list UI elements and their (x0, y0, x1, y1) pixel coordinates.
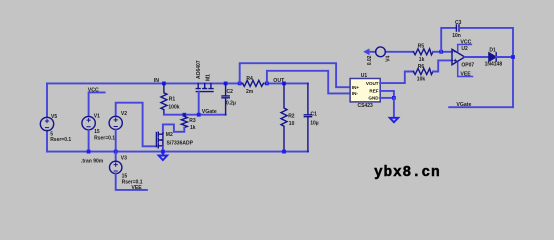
wire U2 VCC pin stub (458, 45, 472, 52)
wire IN rail from V5 top to R4 (47, 82, 243, 84)
wire VGate rail (164, 114, 226, 116)
svg-text:1N4148: 1N4148 (485, 61, 503, 67)
node junction R2-rail (282, 150, 286, 154)
wire VCC stub at V1 (89, 92, 105, 116)
svg-text:IN-: IN- (352, 91, 359, 96)
wire M1 gate to VGate rail (198, 92, 200, 115)
wire U1 VOUT to R6 (380, 72, 413, 84)
wire C3 right leg to feedback corner (459, 28, 513, 107)
svg-text:V1: V1 (94, 114, 100, 120)
svg-text:.tran 90m: .tran 90m (81, 159, 104, 165)
resistor R1 (161, 83, 167, 114)
svg-text:Rser=0.1: Rser=0.1 (50, 137, 71, 143)
svg-text:C3: C3 (455, 20, 462, 26)
svg-text:D1: D1 (489, 48, 496, 54)
capacitor C3 (456, 25, 459, 31)
resistor R5 (413, 49, 433, 55)
svg-text:2m: 2m (246, 89, 254, 95)
svg-text:AO6407: AO6407 (196, 60, 202, 79)
svg-text:10µ: 10µ (310, 121, 319, 127)
wire R5 to opamp inverting input (433, 51, 452, 53)
wire C3 left leg (441, 28, 456, 52)
voltage source V2 (109, 116, 122, 129)
wire V2 bottom (115, 130, 117, 152)
svg-text:M1: M1 (206, 74, 212, 81)
svg-text:V4: V4 (385, 55, 391, 61)
svg-text:0.2µ: 0.2µ (226, 100, 236, 106)
svg-text:VEE: VEE (131, 185, 142, 191)
voltage source V5 (40, 117, 53, 130)
svg-text:CS423: CS423 (358, 103, 374, 109)
node junction D1-feedback (511, 55, 515, 59)
node junction C3 tap (439, 50, 443, 54)
wire GND junction down to ground (393, 98, 395, 117)
transistor M2 Si7336ADP nmos (156, 132, 163, 148)
svg-text:R1: R1 (169, 97, 176, 103)
svg-text:C2: C2 (227, 89, 234, 95)
svg-text:VGate: VGate (202, 109, 217, 115)
svg-text:V3: V3 (121, 156, 127, 162)
transistor M1 AO6407 pmos (196, 83, 213, 91)
wire U1 REF to GND junction (380, 91, 394, 98)
wire V2 top to M2 gate (116, 103, 157, 147)
node junction V1-rail (87, 150, 91, 154)
svg-text:1k: 1k (190, 125, 196, 131)
svg-text:M2: M2 (166, 132, 173, 138)
ground symbol below M2 (159, 152, 168, 161)
wire V1 bottom (88, 130, 90, 152)
node junction IN-C2 (224, 82, 228, 86)
diode D1 1N4148 (489, 53, 496, 61)
voltage source V1 (82, 116, 95, 129)
svg-text:ybx8.cn: ybx8.cn (374, 165, 441, 181)
svg-text:15: 15 (94, 129, 100, 135)
svg-text:10: 10 (289, 121, 295, 127)
op-amp U2 OP07 (452, 49, 465, 64)
svg-text:VEE: VEE (460, 72, 471, 78)
wire IN rail R4 right to C1 corner (264, 82, 308, 84)
node junction IN-R1 (162, 82, 166, 86)
svg-text:VGate: VGate (456, 102, 471, 108)
svg-text:U1: U1 (361, 73, 368, 79)
voltage source V4 with arrow (363, 48, 413, 55)
wire opamp output to D1 (465, 56, 489, 58)
svg-text:VCC: VCC (460, 40, 471, 46)
resistor R2 (281, 83, 287, 151)
svg-text:IN+: IN+ (352, 85, 360, 90)
IC U1 current sense amp CS423 (350, 79, 380, 102)
wire V3 bottom VEE stub (116, 174, 147, 190)
resistor R4 (243, 80, 264, 86)
svg-text:1k: 1k (419, 57, 425, 63)
svg-text:Rser=0.1: Rser=0.1 (94, 135, 115, 141)
resistor R6 (413, 69, 433, 75)
wire sense IN- from OUT to U1 (267, 71, 350, 94)
node junction M2-ground-rail (161, 150, 165, 154)
svg-text:VCC: VCC (88, 87, 99, 93)
svg-text:R2: R2 (288, 114, 295, 120)
wire D1 cathode to feedback node (496, 56, 513, 58)
svg-text:V5: V5 (51, 114, 57, 120)
svg-text:IN: IN (154, 78, 159, 84)
wire V3 top (115, 152, 117, 162)
wire bottom ground rail (47, 151, 308, 153)
wire R6 to opamp non-inverting input (433, 60, 452, 71)
wire R3 to M2 drain staircase (163, 124, 184, 133)
svg-text:GND: GND (368, 96, 379, 101)
voltage source V3 (110, 161, 122, 173)
svg-text:R3: R3 (189, 118, 196, 124)
svg-text:VOUT: VOUT (366, 81, 379, 86)
node junction VGate-M1gate (197, 113, 201, 117)
wire V5 bottom to ground rail (46, 131, 48, 152)
svg-text:REF: REF (369, 88, 378, 93)
wire VGate net stub right (449, 106, 513, 108)
capacitor C1 (304, 83, 311, 151)
ground symbol below U1 (390, 118, 399, 123)
wire sense IN+ from R4 left to U1 (240, 63, 350, 87)
capacitor C2 (222, 83, 229, 114)
wire M2 source to rail (162, 147, 164, 152)
svg-text:10n: 10n (452, 33, 461, 39)
svg-text:R5: R5 (418, 43, 425, 49)
svg-text:0.02: 0.02 (367, 55, 373, 65)
node junction V2/V3-rail (114, 150, 118, 154)
node junction VGate-R3 (182, 113, 186, 117)
wire U2 VEE pin stub (458, 63, 473, 77)
svg-text:R6: R6 (418, 64, 425, 70)
node junction R4 left / IN+ tap (238, 82, 242, 86)
wire V5 left vertical (46, 83, 48, 117)
resistor R3 (181, 115, 187, 128)
svg-text:10k: 10k (417, 77, 426, 83)
node junction REF-GND (392, 96, 396, 100)
svg-text:U2: U2 (461, 46, 468, 52)
svg-text:C1: C1 (311, 111, 318, 117)
node junction OUT-R2 (282, 82, 286, 86)
svg-text:OP07: OP07 (461, 62, 474, 68)
node junction R4 right / IN- tap (265, 82, 269, 86)
svg-text:100k: 100k (168, 105, 179, 111)
wire U1 GND (380, 97, 394, 99)
svg-text:V2: V2 (121, 111, 127, 117)
svg-text:Si7336ADP: Si7336ADP (167, 140, 194, 146)
svg-text:R4: R4 (246, 76, 253, 82)
